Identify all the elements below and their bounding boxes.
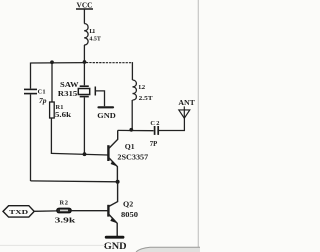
wire VCC to L1 bbox=[83, 9, 85, 24]
svg-text:L2: L2 bbox=[139, 84, 146, 91]
junction dot L2/collector bbox=[129, 128, 133, 132]
svg-text:2.5T: 2.5T bbox=[139, 95, 154, 102]
scan artifact: bottom faint rule bbox=[0, 244, 105, 246]
svg-text:TXD: TXD bbox=[9, 209, 28, 216]
svg-text:4.5T: 4.5T bbox=[89, 35, 101, 42]
svg-text:C2: C2 bbox=[150, 120, 159, 127]
wire C2 to antenna bbox=[159, 118, 185, 131]
svg-text:5.6k: 5.6k bbox=[55, 112, 71, 119]
svg-text:ANT: ANT bbox=[178, 99, 195, 107]
antenna ANT bbox=[179, 110, 190, 118]
scan artifact: right page edge line bbox=[197, 0, 199, 247]
svg-text:GND: GND bbox=[104, 241, 127, 251]
transistor Q2 8050 bbox=[109, 182, 118, 207]
TXD input connector bbox=[3, 206, 34, 217]
wire electrode to ground bbox=[95, 91, 104, 106]
junction dot L1/SAW/rail bbox=[83, 60, 87, 64]
junction dot SAW/base bbox=[83, 152, 87, 156]
wire rail to C1 bbox=[30, 63, 32, 89]
svg-text:SAW: SAW bbox=[60, 80, 79, 89]
wire TXD to R2 bbox=[34, 210, 57, 212]
svg-text:2SC3357: 2SC3357 bbox=[117, 154, 148, 162]
transistor Q1 2SC3357 bbox=[107, 145, 109, 161]
svg-text:GND: GND bbox=[97, 111, 116, 120]
svg-text:R315: R315 bbox=[58, 90, 78, 98]
VCC terminal bar bbox=[76, 8, 93, 10]
ground bar (Q2) bbox=[106, 236, 123, 239]
resistor R1 bbox=[50, 102, 55, 118]
svg-text:Q1: Q1 bbox=[125, 142, 135, 151]
junction dot R1/rail bbox=[50, 60, 54, 64]
wire L1 to rail bbox=[83, 45, 85, 62]
resistor R2 bbox=[57, 208, 71, 213]
capacitor C1 bbox=[24, 88, 37, 90]
SAW case electrode bbox=[94, 87, 96, 96]
wire rail to R1 bbox=[51, 63, 53, 103]
wire base rail (R1/SAW to Q1 base) bbox=[51, 153, 107, 155]
capacitor C2 bbox=[154, 126, 156, 135]
wire top rail bbox=[31, 62, 87, 64]
scan artifact: next figure corner bottom-right bbox=[137, 248, 200, 252]
wire SAW top bbox=[83, 62, 85, 85]
svg-text:C1: C1 bbox=[38, 89, 46, 96]
svg-text:R2: R2 bbox=[60, 200, 69, 207]
inductor L2 bbox=[133, 80, 137, 100]
svg-text:Q2: Q2 bbox=[123, 199, 134, 208]
wire R2 to Q2 base bbox=[71, 210, 108, 212]
ground bar (SAW) bbox=[99, 106, 114, 108]
wire rail to L2 bbox=[131, 62, 133, 80]
inductor L1 bbox=[84, 24, 88, 46]
wire Q1 collector rail bbox=[118, 129, 154, 131]
svg-text:7p: 7p bbox=[39, 98, 47, 105]
svg-text:L1: L1 bbox=[89, 28, 95, 35]
wire SAW down bbox=[83, 97, 85, 154]
SAW resonator R315 bbox=[80, 85, 89, 87]
wire bottom rail (C1 to emitter node) bbox=[31, 180, 118, 183]
svg-text:R1: R1 bbox=[56, 104, 64, 111]
wire L2 down bbox=[131, 100, 133, 130]
svg-text:3.9k: 3.9k bbox=[55, 215, 77, 224]
wire R1 down bbox=[50, 118, 52, 154]
junction dot emitter/collector node bbox=[116, 180, 120, 184]
svg-text:8050: 8050 bbox=[121, 211, 138, 219]
svg-text:7P: 7P bbox=[150, 141, 158, 148]
wire C1 down bbox=[30, 95, 32, 182]
